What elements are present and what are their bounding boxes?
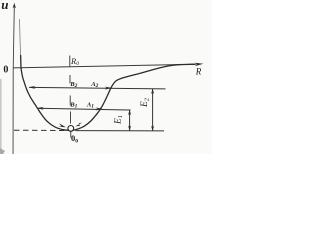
on-curve arrowhead right of minimum <box>75 123 82 127</box>
E1 measurement arrow <box>128 110 131 131</box>
svg-text:B2: B2 <box>69 81 77 89</box>
svg-text:R0: R0 <box>70 56 79 67</box>
svg-text:E2: E2 <box>140 97 150 108</box>
svg-text:E1: E1 <box>114 115 124 125</box>
svg-text:A1: A1 <box>86 101 94 109</box>
potential curve <box>19 19 20 55</box>
on-curve arrowhead left of minimum <box>58 123 66 127</box>
scan artifact bottom-left corner <box>0 148 5 154</box>
R axis <box>13 63 203 68</box>
svg-text:u: u <box>1 0 8 12</box>
R0 dashed vertical line <box>70 56 71 138</box>
scan artifact left edge <box>0 79 2 154</box>
svg-text:R: R <box>195 67 202 77</box>
svg-text:0: 0 <box>3 64 8 75</box>
svg-text:A2: A2 <box>90 81 98 89</box>
E2 measurement arrow <box>151 89 154 131</box>
energy level 1 line B1-A1 <box>37 107 131 111</box>
minimum point circle O0 <box>68 125 74 131</box>
bottom (minimum) level dashed line <box>14 129 164 132</box>
U axis <box>13 3 16 154</box>
svg-text:00: 00 <box>71 133 78 144</box>
energy level 2 line B2-A2 <box>28 86 165 90</box>
